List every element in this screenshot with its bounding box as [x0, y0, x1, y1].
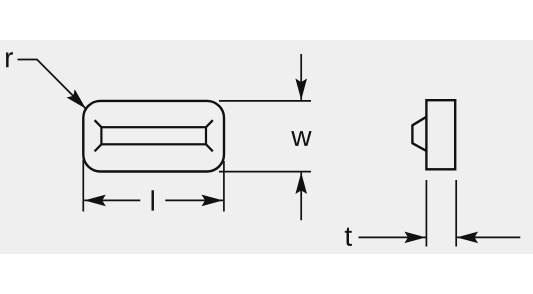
label r [6, 52, 13, 67]
slot chamfer tick top-left [95, 120, 102, 127]
gray drawing background band [0, 40, 533, 254]
l right extension line [223, 161, 225, 212]
slot chamfer tick bottom-right [206, 144, 213, 151]
w bottom extension line [219, 171, 311, 173]
r leader line with arrow to corner radius [18, 60, 86, 109]
w top extension line [219, 100, 311, 102]
t dimension left segment (arrow pointing right) [359, 236, 426, 238]
t dimension right segment (arrow pointing left) [457, 236, 521, 238]
label w [291, 131, 311, 146]
slot chamfer tick bottom-left [95, 144, 102, 151]
front view: inner slot rectangle [101, 127, 206, 144]
side view: side bump profile [412, 117, 426, 151]
slot chamfer tick top-right [206, 120, 213, 127]
l left extension line [82, 160, 84, 212]
w bottom arrow (pointing up) [300, 173, 302, 221]
w top arrow (pointing down) [300, 54, 302, 100]
t right extension line [455, 180, 457, 247]
l dimension line right segment (arrow pointing right) [165, 199, 223, 201]
side view: body rectangle [426, 100, 455, 169]
t left extension line [425, 180, 427, 247]
label l [151, 190, 153, 210]
l dimension line left segment (arrow pointing left) [84, 199, 140, 201]
front view: outer rounded body [83, 101, 224, 172]
label t [345, 228, 352, 246]
